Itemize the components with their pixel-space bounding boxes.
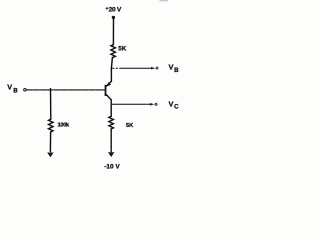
- wire: collector lead down to VC node: [110, 100, 112, 105]
- wire: R2 bottom to ground arrow: [49, 132, 51, 151]
- terminal: VB output diamond: [155, 66, 159, 70]
- transistor Q1 emitter diagonal lead (arrow toward base = PNP): [106, 81, 111, 86]
- svg-text:20 V: 20 V: [109, 6, 122, 13]
- wire: +20V supply down to R1 top: [112, 17, 114, 44]
- resistor R2 (100k base to ground) zigzag: [49, 119, 54, 132]
- svg-text:V: V: [7, 82, 12, 91]
- svg-text:B: B: [13, 87, 18, 94]
- svg-text:-10 V: -10 V: [104, 164, 120, 171]
- resistor R3 (5K to -10V) zigzag: [109, 116, 114, 129]
- wire: VB node down to transistor emitter lead: [110, 68, 112, 81]
- arrowhead on VC output lead: [150, 103, 154, 106]
- wire: base lead from input terminal to transistor base: [27, 89, 105, 91]
- svg-text:5K: 5K: [126, 123, 134, 129]
- wire: node VC horizontal lead to output terminal: [111, 103, 151, 105]
- terminal: input VB open circle: [24, 88, 27, 91]
- ground (down arrow): [47, 153, 53, 158]
- svg-text:C: C: [174, 104, 179, 111]
- terminal: VC output diamond: [154, 103, 158, 107]
- svg-text:100k: 100k: [58, 122, 70, 128]
- wire: node A down to R2 top: [50, 89, 52, 120]
- wire: R1 bottom to VB node: [111, 57, 112, 68]
- transistor Q1 base bar: [105, 85, 107, 96]
- -10V supply arrowhead: [108, 152, 114, 157]
- wire: R3 bottom to -10V arrow: [110, 129, 112, 152]
- wire: node VB horizontal lead to output terminal (dotted start): [113, 67, 122, 69]
- svg-text:V: V: [169, 99, 174, 108]
- arrowhead on VB output lead: [151, 67, 155, 70]
- scan speck top edge: [160, 0, 169, 1]
- resistor R1 (5K collector pull-up) zigzag: [111, 45, 116, 58]
- svg-text:V: V: [169, 62, 174, 71]
- transistor Q1 PNP emitter arrowhead: [106, 82, 111, 87]
- node: +20V supply terminal dot: [112, 16, 115, 19]
- wire: VC node down to R3 top: [110, 104, 112, 116]
- wire: VB lead solid segment: [122, 67, 152, 69]
- transistor Q1 collector diagonal lead: [106, 95, 111, 100]
- svg-text:5K: 5K: [118, 45, 127, 52]
- svg-text:B: B: [174, 67, 179, 74]
